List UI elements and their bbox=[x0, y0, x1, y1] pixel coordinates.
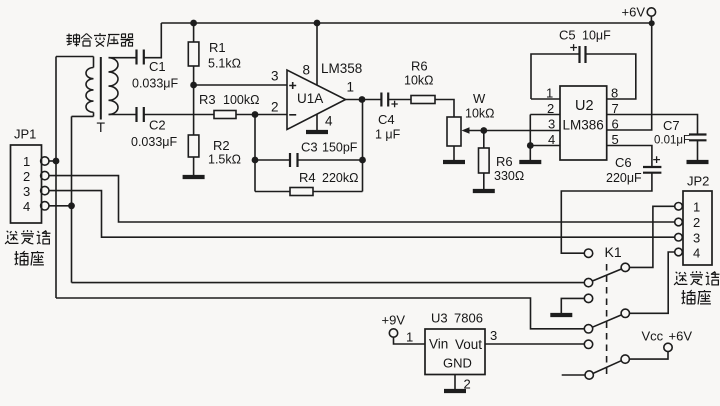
ground below U1A bbox=[306, 131, 328, 133]
svg-text:10kΩ: 10kΩ bbox=[404, 74, 434, 88]
svg-text:4: 4 bbox=[693, 246, 700, 261]
K1 blade 3 bbox=[593, 361, 621, 374]
svg-text:T: T bbox=[97, 119, 106, 135]
junction U1A pin2 bbox=[252, 111, 259, 118]
svg-text:K1: K1 bbox=[605, 244, 622, 260]
wire R6 to pot W top bbox=[435, 100, 454, 118]
wire JP2 pin1 to K1 right top bbox=[630, 206, 675, 267]
svg-text:+6V: +6V bbox=[622, 5, 646, 20]
transformer T primary winding bbox=[86, 57, 94, 117]
wire JP1 pin2 run bbox=[49, 176, 675, 222]
svg-text:8: 8 bbox=[303, 63, 311, 78]
wire U1A pin8 to rail bbox=[316, 23, 318, 85]
svg-text:220kΩ: 220kΩ bbox=[322, 171, 358, 185]
IC U2 box bbox=[560, 86, 607, 160]
svg-text:U3: U3 bbox=[431, 311, 448, 326]
resistor R4 bbox=[290, 188, 313, 196]
wire bias node down to R2 bbox=[193, 85, 195, 135]
wire top +6V rail bbox=[161, 22, 651, 24]
junction output node bbox=[359, 96, 366, 103]
wire U1A pin4 to ground bbox=[316, 114, 318, 130]
svg-text:1: 1 bbox=[406, 330, 413, 345]
wire U2 pin1 stub bbox=[531, 98, 560, 100]
svg-text:4: 4 bbox=[548, 132, 555, 147]
svg-text:3: 3 bbox=[23, 184, 30, 199]
connector JP2 box bbox=[683, 191, 712, 265]
capacitor C7 bbox=[689, 135, 707, 141]
wire U3 pin2 to gnd bbox=[454, 375, 456, 390]
K1 blade 1 bbox=[592, 269, 621, 281]
connector JP1 box bbox=[11, 145, 42, 223]
resistor R2 bbox=[188, 135, 199, 175]
wire JP1 pin3 run bbox=[49, 191, 675, 238]
svg-text:R6: R6 bbox=[411, 59, 428, 74]
svg-text:GND: GND bbox=[443, 356, 472, 371]
junction JP1 pin4 bbox=[68, 202, 75, 209]
resistor R6a bbox=[411, 96, 435, 104]
svg-text:1: 1 bbox=[693, 200, 700, 215]
ground below C7 bbox=[687, 161, 709, 163]
JP2 pin4 circle bbox=[675, 248, 683, 256]
svg-text:4: 4 bbox=[325, 114, 333, 129]
label JP2 socket 送受话 bbox=[674, 271, 719, 285]
svg-text:JP2: JP2 bbox=[687, 174, 709, 189]
svg-text:+9V: +9V bbox=[382, 313, 406, 328]
potentiometer W wiper arrow bbox=[462, 127, 484, 134]
svg-text:6: 6 bbox=[612, 117, 619, 132]
svg-text:1: 1 bbox=[347, 80, 355, 95]
junction C3 right bbox=[359, 157, 366, 164]
svg-text:LM358: LM358 bbox=[321, 61, 362, 76]
resistor R3 bbox=[214, 111, 236, 119]
capacitor C3 bbox=[290, 153, 298, 167]
wire pin1 net to K1 stair bbox=[56, 298, 584, 329]
capacitor C5 with legs to pins 1,8 bbox=[531, 46, 636, 99]
ground below R6b bbox=[473, 190, 495, 192]
terminal +6V top bbox=[647, 8, 655, 16]
wire secondary bottom to C2 bbox=[109, 114, 137, 116]
svg-text:1: 1 bbox=[23, 154, 30, 169]
svg-text:R4: R4 bbox=[299, 170, 316, 185]
svg-text:1.5kΩ: 1.5kΩ bbox=[208, 153, 241, 167]
op-amp U1A bbox=[287, 70, 346, 130]
wire JP1 pin1 to node bbox=[49, 160, 56, 162]
capacitor C1 bbox=[137, 50, 144, 65]
svg-text:C4: C4 bbox=[378, 112, 395, 127]
svg-text:3: 3 bbox=[693, 231, 700, 246]
svg-text:R6: R6 bbox=[496, 154, 513, 169]
svg-text:1: 1 bbox=[546, 86, 553, 101]
svg-text:1 μF: 1 μF bbox=[375, 128, 401, 142]
svg-text:0.033μF: 0.033μF bbox=[131, 135, 177, 149]
svg-text:330Ω: 330Ω bbox=[494, 169, 524, 183]
svg-text:4: 4 bbox=[23, 199, 30, 214]
svg-text:5.1kΩ: 5.1kΩ bbox=[208, 57, 241, 71]
wire left vertical JP1 pin1 net bbox=[55, 57, 57, 299]
wire C2 to R3 to U1A pin2 bbox=[144, 114, 287, 116]
terminal +9V bbox=[389, 329, 397, 337]
svg-text:R1: R1 bbox=[209, 40, 226, 55]
svg-text:7806: 7806 bbox=[454, 311, 483, 326]
junction JP1 pin1 bbox=[53, 158, 60, 165]
wire C7 to ground bbox=[697, 140, 699, 160]
capacitor C2 bbox=[137, 107, 144, 122]
svg-text:2: 2 bbox=[693, 215, 700, 230]
JP1 pin2 circle bbox=[41, 171, 49, 179]
wire U3 Vout to K1 bbox=[485, 343, 584, 345]
potentiometer W body bbox=[447, 117, 461, 146]
svg-text:C7: C7 bbox=[663, 118, 680, 133]
wire feedback left vertical bbox=[254, 115, 256, 192]
svg-text:2: 2 bbox=[23, 169, 30, 184]
capacitor C4 bbox=[381, 93, 388, 107]
relay K1 contacts left column bbox=[584, 249, 592, 257]
JP2 pin1 circle bbox=[675, 203, 683, 211]
relay K1 contacts right column bbox=[621, 263, 629, 271]
svg-text:10kΩ: 10kΩ bbox=[465, 107, 495, 121]
svg-text:LM386: LM386 bbox=[563, 118, 604, 133]
wire JP1 pin4 to node bbox=[49, 205, 72, 207]
svg-text:2: 2 bbox=[547, 101, 554, 116]
svg-text:C3: C3 bbox=[301, 140, 318, 155]
opamp minus sign bbox=[289, 114, 296, 116]
ground K1 bbox=[550, 314, 572, 316]
junction U2 pin4 gnd bbox=[527, 142, 534, 149]
K1 dashed linkage bbox=[606, 264, 608, 377]
JP1 pin3 circle bbox=[41, 186, 49, 194]
junction top rail at R1 bbox=[190, 20, 197, 27]
wire C3 row bbox=[255, 159, 363, 161]
wire U1A output to C4 bbox=[346, 99, 382, 101]
label transformer 耦合变压器 bbox=[67, 33, 134, 47]
JP2 pin2 circle bbox=[675, 218, 683, 226]
wire feedback right vertical bbox=[362, 100, 364, 192]
C6 plus sign bbox=[653, 156, 660, 163]
junction feedback C3 left bbox=[252, 157, 259, 164]
wire primary top lead to left vertical bbox=[56, 56, 94, 58]
svg-text:JP1: JP1 bbox=[14, 127, 36, 142]
JP2 pin3 circle bbox=[675, 233, 683, 241]
wire +6V rail down to U2 pin 6 bbox=[607, 23, 652, 130]
label JP1 socket 插座 bbox=[15, 251, 44, 265]
svg-text:3: 3 bbox=[271, 69, 279, 84]
svg-text:0.033μF: 0.033μF bbox=[132, 77, 178, 91]
wire K1 right bottom to Vcc bbox=[629, 352, 668, 360]
ground below U2 bbox=[519, 161, 541, 163]
svg-text:Vin: Vin bbox=[429, 337, 448, 352]
svg-text:3: 3 bbox=[490, 328, 497, 343]
wire JP1 pin4 vertical bbox=[71, 116, 73, 282]
wire U2 pin2-pin4 ground vertical bbox=[529, 115, 531, 161]
resistor R6b bbox=[479, 148, 490, 189]
terminal Vcc bbox=[664, 343, 672, 351]
C4 plus sign bbox=[391, 101, 397, 107]
C5 plus sign bbox=[570, 44, 577, 51]
svg-text:U1A: U1A bbox=[297, 91, 323, 106]
junction R1 bottom / pin3 bbox=[190, 82, 197, 89]
wire pin4 net to K1 bbox=[72, 282, 585, 284]
wire wiper to U2 pin3 bbox=[484, 130, 560, 132]
svg-text:W: W bbox=[473, 91, 486, 106]
wire R6b top bbox=[483, 131, 485, 149]
transformer T core bbox=[100, 57, 102, 120]
wire C6 bottom to K1 top contact bbox=[561, 173, 652, 254]
svg-text:0.01μF: 0.01μF bbox=[654, 135, 690, 147]
wire pot bottom to ground bbox=[453, 146, 455, 160]
svg-text:Vcc: Vcc bbox=[642, 329, 664, 344]
svg-text:2: 2 bbox=[271, 100, 279, 115]
opamp plus sign bbox=[289, 82, 296, 89]
wire U2 pin5 to C6 bbox=[607, 146, 652, 167]
wire R1 bottom to U1A pin3 bbox=[194, 84, 287, 86]
JP1 pin4 circle bbox=[41, 202, 49, 210]
wire K1 bottom stub bbox=[562, 374, 585, 376]
regulator U3 box bbox=[425, 329, 485, 375]
wire secondary top to C1 bbox=[109, 57, 137, 59]
svg-text:220μF: 220μF bbox=[606, 171, 642, 185]
label JP1 socket 送受话 bbox=[5, 230, 50, 244]
svg-text:150pF: 150pF bbox=[322, 141, 358, 155]
ground below U3 bbox=[444, 390, 466, 392]
wire U2 pin7 to C7 bbox=[607, 115, 698, 135]
svg-text:C6: C6 bbox=[615, 155, 632, 170]
svg-text:U2: U2 bbox=[575, 98, 594, 114]
svg-text:+6V: +6V bbox=[669, 329, 693, 344]
svg-text:C1: C1 bbox=[149, 59, 166, 74]
svg-text:Vout: Vout bbox=[455, 337, 482, 352]
ground below R2 bbox=[183, 176, 205, 178]
junction top rail at U1A pin8 bbox=[314, 20, 321, 27]
wire C4 to R6 bbox=[388, 99, 411, 101]
JP1 pin1 circle bbox=[41, 157, 49, 165]
resistor R1 bbox=[188, 23, 199, 85]
svg-text:3: 3 bbox=[548, 117, 555, 132]
wire K1 gnd contact bbox=[561, 298, 584, 313]
svg-text:C5: C5 bbox=[559, 28, 576, 43]
wire R4 row bbox=[255, 191, 363, 193]
wire C1 to top rail bbox=[144, 23, 162, 58]
svg-text:R2: R2 bbox=[213, 138, 230, 153]
svg-text:100kΩ: 100kΩ bbox=[223, 93, 259, 107]
wire U2 pin2 stub bbox=[530, 114, 560, 116]
transformer T secondary winding bbox=[109, 58, 119, 115]
wire U2 pin4 stub bbox=[530, 145, 560, 147]
wire +9V to Vin bbox=[394, 337, 426, 344]
label JP2 socket 插座 bbox=[682, 290, 711, 304]
junction top rail at +6V bbox=[649, 20, 655, 26]
wire primary bottom lead bbox=[72, 115, 94, 117]
svg-text:R3: R3 bbox=[199, 92, 216, 107]
junction wiper node bbox=[480, 127, 487, 134]
wire JP2 pin4 to K1 right mid bbox=[630, 252, 675, 313]
capacitor C6 bbox=[643, 167, 661, 173]
ground below pot W bbox=[443, 161, 465, 163]
K1 blade 2 bbox=[592, 315, 621, 327]
svg-text:10μF: 10μF bbox=[582, 29, 611, 43]
svg-text:C2: C2 bbox=[149, 118, 166, 133]
